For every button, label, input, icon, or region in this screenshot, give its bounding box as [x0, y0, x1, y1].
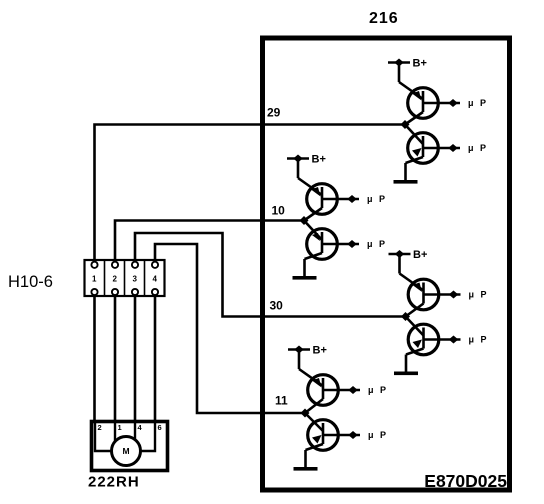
- wire B+ to Q1 emitter: [399, 82, 423, 99]
- svg-text:2: 2: [98, 423, 102, 432]
- ground (pair 3): [394, 372, 418, 376]
- base terminal arrow Q5: [449, 291, 459, 299]
- wire motor pin 1 to motor: [114, 423, 116, 442]
- svg-text:E870D025: E870D025: [424, 471, 507, 491]
- transistor Q2 (bottom, pair 1): [405, 125, 460, 164]
- connector pin 2 bottom terminal: [112, 289, 118, 295]
- wire Q8 emitter to ground: [304, 450, 307, 467]
- base terminal arrow Q1: [448, 99, 458, 107]
- svg-text:μ P: μ P: [468, 98, 488, 108]
- B+ supply terminal (pair 1): [388, 59, 410, 83]
- svg-text:M: M: [122, 446, 129, 456]
- wire B+ to Q3 emitter: [298, 178, 322, 195]
- wire B+ to Q7 emitter: [299, 369, 323, 386]
- connector pin 2 top terminal: [112, 262, 118, 268]
- svg-text:μ P: μ P: [368, 430, 388, 440]
- svg-text:4: 4: [152, 275, 157, 284]
- wire Q6 emitter to ground: [405, 355, 408, 372]
- wire B+ to Q5 emitter: [400, 274, 424, 291]
- motor unit box 222RH: [92, 422, 168, 471]
- ground (pair 4): [294, 467, 318, 471]
- connector pin 3 bottom terminal: [132, 289, 138, 295]
- wire 30 (pin3 to ECU): [135, 233, 404, 317]
- svg-text:1: 1: [118, 423, 122, 432]
- svg-text:B+: B+: [413, 58, 427, 70]
- ground (pair 2): [293, 276, 317, 280]
- wire connector pin 1 to motor: [93, 295, 96, 424]
- svg-text:6: 6: [158, 423, 162, 432]
- wire 10 (pin2 to ECU): [115, 221, 303, 262]
- svg-text:μ P: μ P: [367, 194, 387, 204]
- transistor Q3 (top, pair 2): [304, 184, 359, 221]
- svg-text:216: 216: [369, 10, 399, 27]
- wire motor pin 6 to motor: [140, 423, 155, 451]
- connector pin 4 bottom terminal: [152, 289, 158, 295]
- connector pin 1 bottom terminal: [91, 289, 97, 295]
- svg-text:29: 29: [267, 106, 281, 120]
- wire Q4 emitter to ground: [303, 259, 306, 276]
- connector H10-6: [85, 260, 165, 296]
- transistor Q8 (bottom, pair 4): [305, 413, 360, 450]
- wire connector pin 2 to motor: [114, 295, 117, 424]
- base terminal arrow Q4: [347, 240, 357, 248]
- base terminal arrow Q3: [347, 195, 357, 203]
- base terminal arrow Q7: [348, 386, 358, 394]
- svg-text:222RH: 222RH: [88, 474, 140, 491]
- base terminal arrow Q8: [348, 431, 358, 439]
- svg-text:1: 1: [92, 275, 97, 284]
- base terminal arrow Q6: [449, 336, 459, 344]
- svg-text:B+: B+: [313, 345, 327, 357]
- transistor Q1 (top, pair 1): [405, 88, 460, 125]
- junction node (pair 2 output): [300, 216, 309, 225]
- svg-text:μ P: μ P: [469, 290, 489, 300]
- transistor Q4 (bottom, pair 2): [304, 221, 359, 260]
- ECU box 216: [263, 38, 510, 490]
- connector pin 4 top terminal: [152, 262, 158, 268]
- wire motor pin 2 to motor: [95, 423, 112, 451]
- svg-text:11: 11: [275, 394, 288, 408]
- wire Q2 emitter to ground: [404, 163, 407, 180]
- svg-text:μ P: μ P: [368, 385, 388, 395]
- svg-text:μ P: μ P: [367, 239, 387, 249]
- connector pin 3 top terminal: [132, 262, 138, 268]
- wire 29 (pin1 to ECU): [95, 125, 404, 262]
- junction node (pair 3 output): [401, 312, 410, 321]
- svg-text:B+: B+: [413, 249, 427, 261]
- B+ supply terminal (pair 3): [389, 250, 411, 274]
- svg-text:H10-6: H10-6: [8, 273, 53, 291]
- motor M: [112, 437, 141, 466]
- svg-text:3: 3: [132, 275, 137, 284]
- svg-text:2: 2: [112, 275, 117, 284]
- svg-text:μ P: μ P: [468, 143, 488, 153]
- base terminal arrow Q2: [448, 144, 458, 152]
- svg-text:10: 10: [272, 204, 286, 218]
- wire connector pin 4 to motor: [154, 295, 157, 424]
- ground (pair 1): [394, 180, 418, 184]
- junction node (pair 4 output): [301, 409, 310, 418]
- connector pin 1 top terminal: [91, 262, 97, 268]
- junction node (pair 1 output): [401, 120, 410, 129]
- transistor Q7 (top, pair 4): [305, 375, 360, 413]
- svg-text:μ P: μ P: [469, 335, 489, 345]
- svg-text:B+: B+: [312, 154, 326, 166]
- transistor Q5 (top, pair 3): [406, 279, 461, 316]
- transistor Q6 (bottom, pair 3): [406, 317, 461, 355]
- wire motor pin 4 to motor: [134, 423, 136, 440]
- B+ supply terminal (pair 4): [288, 346, 310, 370]
- svg-text:30: 30: [270, 299, 284, 313]
- wire 11 (pin4 to ECU): [155, 244, 304, 413]
- B+ supply terminal (pair 2): [287, 155, 309, 179]
- wire connector pin 3 to motor: [134, 295, 137, 424]
